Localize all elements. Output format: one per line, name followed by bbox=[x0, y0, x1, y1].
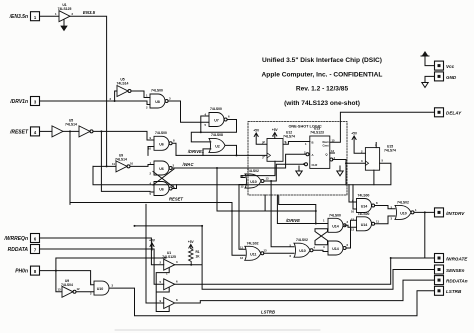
wire PH0 branch up bbox=[56, 258, 166, 271]
wire U2 out bbox=[225, 145, 237, 155]
pad RDDATAn bbox=[435, 276, 468, 285]
wire inv out to U10d bbox=[76, 291, 94, 293]
svg-text:2: 2 bbox=[110, 97, 112, 101]
buffer U1c bbox=[164, 279, 175, 290]
pad /DRV1n bbox=[9, 97, 39, 106]
+5V (pullup left) bbox=[150, 243, 154, 250]
wire between inverters bbox=[63, 130, 79, 132]
wire latch2 bottom out to U14b top bbox=[346, 220, 356, 248]
svg-text:8: 8 bbox=[173, 139, 175, 143]
svg-text:10: 10 bbox=[130, 162, 134, 166]
svg-text:B: B bbox=[312, 140, 314, 144]
buffer U1 74LS125 bbox=[58, 3, 72, 22]
svg-text:74LS125: 74LS125 bbox=[58, 7, 72, 11]
svg-text:74LS02: 74LS02 bbox=[397, 200, 409, 204]
svg-text:4: 4 bbox=[323, 245, 325, 249]
+5V (R1) bbox=[189, 245, 193, 249]
svg-text:74LS02: 74LS02 bbox=[247, 241, 259, 245]
wire U6 in2 bbox=[148, 147, 154, 156]
svg-text:/EN3.5n: /EN3.5n bbox=[9, 14, 28, 20]
U1 enable stub bbox=[63, 20, 65, 26]
or U2 74LS08 bbox=[209, 133, 225, 152]
svg-text:U6: U6 bbox=[159, 142, 164, 146]
wire U12 pin3 to U10a bbox=[241, 161, 275, 177]
svg-text:1: 1 bbox=[323, 219, 325, 223]
nor U10b 74LS02 bbox=[294, 238, 313, 257]
svg-text:74LS00: 74LS00 bbox=[329, 213, 341, 217]
svg-text:12: 12 bbox=[240, 256, 244, 260]
svg-text:7: 7 bbox=[34, 248, 37, 253]
svg-text:2: 2 bbox=[150, 172, 152, 176]
wire U15 bottom stub bbox=[373, 170, 375, 185]
svg-text:Q: Q bbox=[325, 153, 328, 157]
+5V (U12 D) bbox=[254, 133, 267, 144]
nand U16b latch2 bottom bbox=[328, 241, 346, 255]
pad PH0n bbox=[15, 266, 39, 275]
wire PH0n bbox=[40, 271, 95, 285]
svg-text:Cext: Cext bbox=[322, 144, 328, 148]
svg-text:4: 4 bbox=[34, 130, 37, 135]
and U10d bbox=[94, 281, 109, 295]
nand U16a latch2 top bbox=[328, 213, 346, 232]
svg-text:74LS00: 74LS00 bbox=[358, 212, 370, 216]
svg-text:GND: GND bbox=[446, 75, 457, 80]
nand U14a 74LS00 bbox=[357, 194, 375, 213]
svg-text:3: 3 bbox=[34, 100, 37, 105]
pad /RESET bbox=[9, 127, 40, 136]
svg-text:1: 1 bbox=[146, 94, 148, 98]
svg-text:1: 1 bbox=[415, 208, 417, 212]
svg-text:1: 1 bbox=[34, 15, 37, 20]
svg-text:11: 11 bbox=[241, 174, 244, 178]
ground (U1 enable) bbox=[61, 26, 67, 31]
svg-text:RESET: RESET bbox=[169, 196, 183, 201]
wire buffer3 feed bbox=[146, 204, 164, 303]
wire U2 in2 bbox=[203, 149, 211, 156]
svg-text:/DRIVE1: /DRIVE1 bbox=[187, 149, 205, 154]
svg-text:RDDATAn: RDDATAn bbox=[446, 279, 468, 284]
pad SENSEn bbox=[435, 265, 465, 274]
wire DELAY to U13 bbox=[330, 112, 435, 142]
svg-text:U10: U10 bbox=[299, 249, 306, 253]
svg-text:74LS14: 74LS14 bbox=[115, 157, 127, 161]
svg-text:R1: R1 bbox=[196, 250, 200, 254]
svg-text:8: 8 bbox=[376, 201, 378, 205]
nand U6b latch top bbox=[154, 161, 172, 175]
svg-text:/WRGATE: /WRGATE bbox=[445, 256, 468, 261]
svg-text:74LS14: 74LS14 bbox=[117, 81, 129, 85]
svg-text:74LS123: 74LS123 bbox=[310, 130, 324, 134]
wire U13 Q stub bbox=[330, 152, 335, 154]
wire U10c out to pad bbox=[414, 211, 435, 213]
svg-text:74LS04: 74LS04 bbox=[61, 283, 73, 287]
svg-text:12: 12 bbox=[351, 217, 355, 221]
svg-text:A: A bbox=[312, 153, 314, 157]
resistor R1 bbox=[189, 249, 193, 265]
inverter U5b 74LS14 bbox=[65, 119, 93, 137]
svg-text:Vcc: Vcc bbox=[446, 64, 455, 69]
svg-text:/WRREQn: /WRREQn bbox=[3, 236, 28, 242]
svg-text:2: 2 bbox=[146, 106, 148, 110]
net WAC trunk T2 bbox=[174, 154, 306, 168]
svg-text:12: 12 bbox=[77, 287, 81, 291]
svg-text:6: 6 bbox=[347, 243, 349, 247]
net trunk T3 bbox=[93, 163, 391, 185]
svg-text:74LS00: 74LS00 bbox=[210, 107, 222, 111]
pad /INTDRV bbox=[435, 208, 466, 217]
scan artifact bottom bbox=[115, 329, 320, 331]
ground symbol bbox=[422, 76, 435, 87]
svg-text:11: 11 bbox=[112, 162, 115, 166]
wire U5b out to U6 bbox=[93, 131, 154, 140]
svg-text:+5V: +5V bbox=[272, 128, 279, 132]
svg-text:74LS02: 74LS02 bbox=[247, 169, 259, 173]
svg-text:3: 3 bbox=[169, 97, 171, 101]
svg-text:U14: U14 bbox=[332, 247, 339, 251]
pad /WRREQn bbox=[3, 234, 39, 243]
power symbol bbox=[421, 56, 435, 66]
svg-text:2: 2 bbox=[160, 261, 162, 265]
wire U5c out to U8 bbox=[131, 91, 150, 98]
nand U8 74LS00 bbox=[150, 89, 168, 109]
svg-text:74LS08: 74LS08 bbox=[211, 133, 223, 137]
net RESET trunk T4 bbox=[70, 203, 316, 256]
svg-text:(with 74LS123 one-shot): (with 74LS123 one-shot) bbox=[284, 100, 360, 107]
svg-text:+5V: +5V bbox=[351, 132, 358, 136]
wire RDDATA bbox=[40, 249, 164, 284]
wire PH0 branch to inverter bbox=[56, 271, 62, 292]
svg-text:6: 6 bbox=[176, 279, 178, 283]
nor U10c 74LS02 bbox=[395, 200, 414, 219]
svg-text:U6: U6 bbox=[159, 167, 164, 171]
+5V (U15) bbox=[352, 136, 365, 153]
svg-text:U14: U14 bbox=[361, 223, 368, 227]
nand U14b 74LS00 bbox=[357, 212, 375, 231]
enable chain bbox=[156, 268, 169, 312]
wire U7 out loop bbox=[191, 120, 236, 142]
inverter U5c 74LS14 bbox=[117, 78, 131, 97]
svg-text:2: 2 bbox=[72, 12, 74, 16]
svg-text:5: 5 bbox=[205, 123, 207, 127]
svg-text:13: 13 bbox=[264, 248, 268, 252]
nand U6c latch bottom bbox=[154, 182, 172, 196]
buffer U1d bbox=[164, 298, 175, 309]
wire latch2 top out to U14b bbox=[345, 225, 357, 227]
wire U14a inputs bbox=[349, 185, 357, 209]
wire INTDRV down branch bbox=[424, 212, 426, 258]
inverter U9 74LS14 bbox=[115, 154, 130, 172]
flip-flop U12 74LS74 bbox=[263, 131, 295, 162]
wire T2 branch down bbox=[216, 168, 218, 211]
svg-text:EN3.5: EN3.5 bbox=[83, 10, 96, 15]
svg-text:74LS00: 74LS00 bbox=[155, 131, 167, 135]
wire U7 feedback top input bbox=[201, 116, 209, 132]
svg-text:U14: U14 bbox=[361, 205, 368, 209]
wire U8 out bbox=[168, 101, 209, 122]
svg-text:U10: U10 bbox=[250, 180, 257, 184]
nand U7 74LS00 bbox=[209, 107, 227, 127]
nor U11 74LS02 bbox=[245, 241, 264, 260]
pad Vcc bbox=[435, 61, 455, 70]
inverter U9b 74LS04 bbox=[61, 279, 76, 297]
svg-text:10: 10 bbox=[351, 209, 355, 213]
svg-text:11: 11 bbox=[240, 245, 243, 249]
svg-text:13: 13 bbox=[331, 149, 335, 153]
wire buffer2 out / WRGATE run bbox=[175, 258, 435, 284]
inverter U5a bbox=[52, 126, 63, 137]
junction bbox=[114, 100, 116, 102]
svg-text:/DRV1n: /DRV1n bbox=[9, 99, 28, 105]
svg-text:Rev. 1.2 - 12/3/85: Rev. 1.2 - 12/3/85 bbox=[296, 86, 349, 93]
svg-text:U6: U6 bbox=[159, 188, 164, 192]
svg-text:/DRIVE: /DRIVE bbox=[285, 218, 300, 223]
svg-text:13: 13 bbox=[351, 228, 355, 232]
svg-text:4: 4 bbox=[314, 246, 316, 250]
wire U10a out branch to U10b bbox=[271, 181, 294, 247]
svg-text:LSTRB: LSTRB bbox=[261, 310, 275, 315]
net /DRIVE trunk bbox=[265, 195, 328, 224]
svg-text:8: 8 bbox=[34, 269, 37, 274]
wire to U5c input bbox=[115, 91, 117, 101]
svg-text:3: 3 bbox=[173, 163, 175, 167]
svg-text:11: 11 bbox=[376, 219, 379, 223]
svg-text:3: 3 bbox=[347, 220, 349, 224]
svg-text:13: 13 bbox=[58, 288, 62, 292]
svg-text:Unified 3.5" Disk Interface Ch: Unified 3.5" Disk Interface Chip (DSIC) bbox=[262, 57, 382, 64]
ground (U13 right) bbox=[337, 166, 343, 176]
svg-text:3: 3 bbox=[112, 284, 114, 288]
wire U6 out to T1 bbox=[172, 143, 176, 155]
pad /WRGATE bbox=[435, 254, 469, 263]
svg-text:9: 9 bbox=[150, 136, 152, 140]
wire T5 branch bbox=[101, 131, 154, 192]
wire latch bottom out to T3 bbox=[172, 185, 176, 189]
+5V (U12 PRE) bbox=[273, 133, 277, 139]
svg-text:1: 1 bbox=[305, 142, 307, 146]
svg-text:/INTDRV: /INTDRV bbox=[445, 211, 465, 216]
wire U10a in2 bbox=[239, 185, 247, 250]
svg-text:1K: 1K bbox=[196, 255, 201, 259]
svg-text:PH0n: PH0n bbox=[15, 269, 28, 275]
svg-text:U2: U2 bbox=[215, 144, 220, 148]
svg-text:+5V: +5V bbox=[253, 129, 260, 133]
nor U10a 74LS02 bbox=[245, 169, 264, 188]
wire U9 out to latch bbox=[130, 165, 154, 167]
svg-text:74LS02: 74LS02 bbox=[296, 238, 308, 242]
svg-text:12: 12 bbox=[241, 185, 245, 189]
title block bbox=[262, 57, 383, 107]
wire U10a out to U13 CLR bbox=[264, 164, 304, 181]
svg-text:U8: U8 bbox=[155, 100, 160, 104]
svg-text:6: 6 bbox=[228, 115, 230, 119]
wire /WRREQn bbox=[40, 238, 164, 265]
wire U11 out bbox=[264, 252, 294, 254]
pad /EN3.5n bbox=[9, 12, 40, 21]
wire pad to U1 bbox=[40, 15, 60, 17]
svg-text:6: 6 bbox=[34, 237, 37, 242]
svg-text:6: 6 bbox=[290, 254, 292, 258]
nand U6 74LS00 bbox=[154, 131, 172, 151]
svg-text:1: 1 bbox=[90, 281, 92, 285]
wire U12 Q to U13 B bbox=[283, 142, 310, 145]
svg-text:CLR: CLR bbox=[312, 163, 318, 167]
pad LSTRB bbox=[435, 286, 462, 295]
svg-text:74LS125: 74LS125 bbox=[162, 255, 176, 259]
one-shot dashed box bbox=[248, 122, 347, 196]
svg-text:1: 1 bbox=[55, 12, 57, 16]
wire U13 /Q to U15 bbox=[330, 158, 333, 161]
wire buffer3 out / RDDATAn run bbox=[175, 280, 435, 303]
svg-text:10: 10 bbox=[148, 147, 152, 151]
svg-text:SENSEn: SENSEn bbox=[446, 268, 465, 273]
svg-text:U14: U14 bbox=[332, 224, 339, 228]
pad DELAY bbox=[435, 108, 463, 117]
svg-text:13: 13 bbox=[266, 176, 270, 180]
svg-text:3: 3 bbox=[391, 216, 393, 220]
svg-text:Apple Computer, Inc. - CONFI: Apple Computer, Inc. - CONFIDENTIAL bbox=[262, 71, 383, 78]
svg-text:U7: U7 bbox=[214, 119, 219, 123]
svg-text:5: 5 bbox=[382, 159, 384, 163]
svg-text:U11: U11 bbox=[250, 252, 256, 256]
svg-text:3: 3 bbox=[176, 260, 178, 264]
svg-text:5: 5 bbox=[150, 192, 152, 196]
svg-text:74LS00: 74LS00 bbox=[151, 89, 163, 93]
net EN3.5 wire bbox=[70, 16, 107, 166]
svg-text:U10: U10 bbox=[97, 287, 104, 291]
ground (U13 left) bbox=[296, 166, 302, 176]
svg-text:U10: U10 bbox=[400, 211, 407, 215]
net DRIVE1 trunk T1 bbox=[176, 154, 267, 156]
svg-text:RDDATA: RDDATA bbox=[8, 247, 29, 253]
wire buffer1 out / SENSEn run bbox=[175, 226, 435, 289]
latch cross wires bbox=[153, 168, 174, 189]
svg-text:74LS14: 74LS14 bbox=[65, 122, 77, 126]
svg-text:74LS00: 74LS00 bbox=[358, 194, 370, 198]
pad RDDATA bbox=[8, 245, 40, 254]
one-shot U13 74LS123 bbox=[310, 127, 330, 169]
wire U15 pin4 stub bbox=[375, 143, 377, 148]
flip-flop U15 74LS74 bbox=[365, 143, 396, 170]
wire /DRV1n bbox=[40, 101, 151, 105]
wire U10d out / LSTRB run bbox=[109, 288, 435, 316]
svg-text:+5V: +5V bbox=[149, 239, 156, 243]
latch2 cross wires bbox=[315, 229, 328, 245]
svg-text:/WAC: /WAC bbox=[182, 162, 195, 167]
svg-text:8: 8 bbox=[176, 298, 178, 302]
pad GND bbox=[435, 72, 457, 81]
svg-text:74LS74: 74LS74 bbox=[384, 148, 396, 152]
wire trunk y226 bbox=[135, 225, 203, 227]
svg-text:15: 15 bbox=[332, 138, 336, 142]
svg-text:+5V: +5V bbox=[188, 240, 195, 244]
svg-text:3: 3 bbox=[361, 159, 363, 163]
wire to U5a bbox=[40, 130, 53, 132]
wire U9 input bbox=[93, 165, 116, 167]
wire T4 reset branch bbox=[69, 131, 71, 204]
svg-text:LSTRB: LSTRB bbox=[446, 289, 462, 294]
wire U10b out bbox=[313, 250, 328, 251]
svg-text:74LS74: 74LS74 bbox=[283, 135, 295, 139]
svg-text:9: 9 bbox=[160, 299, 162, 303]
wires U14 outs to U10c bbox=[375, 206, 395, 224]
buffer U1b 74LS125 bbox=[162, 251, 176, 270]
svg-text:DELAY: DELAY bbox=[446, 111, 462, 116]
svg-text:5: 5 bbox=[160, 280, 162, 284]
svg-text:/RESET: /RESET bbox=[9, 129, 29, 135]
